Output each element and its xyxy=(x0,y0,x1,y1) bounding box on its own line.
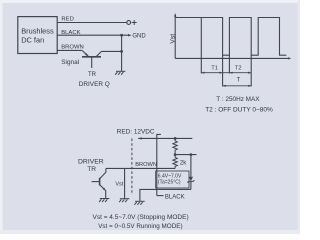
ground (zener) xyxy=(134,201,144,205)
svg-text:GND: GND xyxy=(132,33,146,39)
resistor R2 2k xyxy=(173,157,177,168)
zener info box xyxy=(156,171,189,188)
waveform trace xyxy=(175,18,286,56)
svg-text:T2: T2 xyxy=(235,66,242,72)
waveform time axis xyxy=(175,57,289,59)
extension line t2 xyxy=(228,55,230,73)
svg-text:BROWN: BROWN xyxy=(61,44,84,50)
svg-text:Vst = 4.5~7.0V (Stopping MODE: Vst = 4.5~7.0V (Stopping MODE) xyxy=(93,214,189,221)
wire BLACK xyxy=(57,34,128,36)
wire Vst sense xyxy=(124,168,126,198)
ground (Vst) xyxy=(119,199,129,203)
wire BROWN (bottom) xyxy=(106,167,175,169)
dimension line T1 T2 xyxy=(201,72,251,74)
wire red rail xyxy=(138,137,192,139)
fan box (Brushless DC fan) xyxy=(18,17,57,54)
label DRIVER TR xyxy=(78,158,104,173)
zener diode ZD xyxy=(187,155,194,190)
red rail arrow xyxy=(138,137,142,139)
svg-text:T: T xyxy=(237,78,241,84)
svg-text:TR: TR xyxy=(87,166,96,173)
zener info text xyxy=(158,173,182,185)
terminal circle + xyxy=(127,21,131,25)
junction dot emitter/gnd column xyxy=(120,50,123,53)
svg-text:DC fan: DC fan xyxy=(21,35,44,44)
extension line t3 xyxy=(250,55,252,86)
svg-text:RED: 12VDC: RED: 12VDC xyxy=(117,129,155,136)
svg-text:Vst = 0~0.5V Running MODE): Vst = 0~0.5V Running MODE) xyxy=(98,223,182,230)
svg-text:Vst: Vst xyxy=(115,182,123,188)
svg-text:Brushless: Brushless xyxy=(21,27,54,36)
svg-text:BLACK: BLACK xyxy=(61,30,80,36)
svg-text:T2 : OFF DUTY 0~80%: T2 : OFF DUTY 0~80% xyxy=(205,106,273,113)
wire zener bottom to ground xyxy=(140,189,191,200)
svg-text:2k: 2k xyxy=(180,160,187,166)
ground (top) xyxy=(115,71,125,75)
ground (emitter) xyxy=(99,199,109,203)
black label corner xyxy=(157,195,164,197)
svg-text:Signal: Signal xyxy=(61,59,79,66)
resistor R1 xyxy=(173,138,177,157)
transistor Q xyxy=(82,51,102,69)
wire gnd column xyxy=(121,35,123,71)
junction dot R1 top xyxy=(174,137,177,140)
junction dot BLACK/GND column xyxy=(120,34,123,37)
junction dot node A xyxy=(174,153,177,156)
wire BLACK vertical xyxy=(157,134,161,195)
extension line t1 xyxy=(222,55,224,86)
svg-text:BROWN: BROWN xyxy=(135,162,157,168)
svg-text:(Ta=25°C): (Ta=25°C) xyxy=(158,179,181,185)
wire node to zener xyxy=(175,154,196,156)
svg-text:DRIVER Q: DRIVER Q xyxy=(79,81,110,88)
junction dot zener top xyxy=(190,153,193,156)
svg-text:T : 250Hz MAX: T : 250Hz MAX xyxy=(216,96,260,103)
wire RED xyxy=(57,22,126,24)
wire emitter to gnd column xyxy=(101,50,121,52)
wire BROWN xyxy=(57,49,82,51)
fan box label xyxy=(21,27,54,45)
GND arrow xyxy=(128,34,132,37)
svg-text:Vst: Vst xyxy=(170,34,177,44)
svg-text:TR: TR xyxy=(88,72,97,78)
svg-text:T1: T1 xyxy=(211,66,218,72)
svg-text:RED: RED xyxy=(61,16,73,22)
svg-text:BLACK: BLACK xyxy=(165,194,185,200)
plus sign xyxy=(132,20,137,25)
dashed cable line xyxy=(131,139,133,196)
transistor TR (bottom) xyxy=(92,168,106,198)
waveform Vst axis xyxy=(174,16,176,59)
extension line t0 xyxy=(200,18,202,74)
svg-text:DRIVER: DRIVER xyxy=(78,158,104,165)
dimension line T xyxy=(223,85,252,87)
